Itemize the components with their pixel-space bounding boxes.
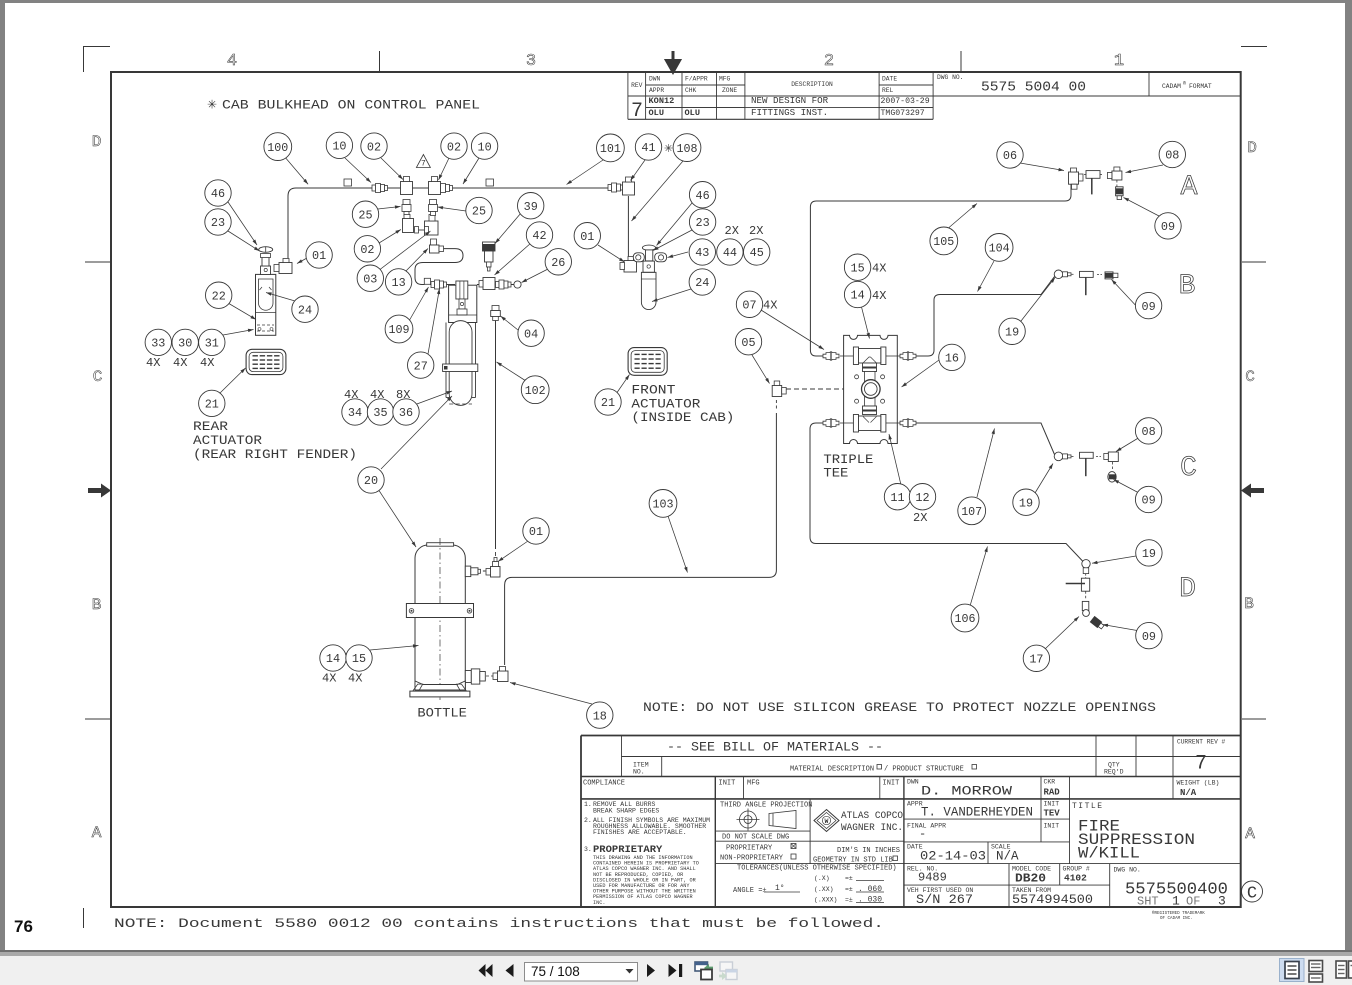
- balloon 14: [320, 645, 346, 671]
- svg-text:ITEM: ITEM: [633, 762, 649, 769]
- elbow fitting 13: [430, 245, 444, 253]
- leader 09 B: [1112, 280, 1141, 311]
- svg-text:75 / 108: 75 / 108: [531, 964, 580, 979]
- svg-text:D: D: [1247, 139, 1257, 157]
- svg-text:=±: =±: [845, 875, 853, 882]
- leader 02 lower: [379, 230, 401, 244]
- leader 10 left: [345, 158, 371, 183]
- wire: line 102 tank to bottle: [495, 320, 497, 549]
- solenoid valve 39: [483, 242, 496, 271]
- leader 10 right: [463, 158, 479, 184]
- balloon 42: [526, 222, 552, 248]
- svg-text:D: D: [92, 133, 102, 151]
- svg-text:B: B: [92, 596, 102, 614]
- check fitting at cab bulkhead: [608, 183, 624, 192]
- svg-text:=±: =±: [845, 886, 853, 893]
- svg-text:(.XX): (.XX): [814, 886, 834, 893]
- svg-text:15: 15: [352, 652, 366, 666]
- svg-text:4X: 4X: [200, 356, 214, 370]
- svg-text:NOTE: Document 5580 0012 00 c: NOTE: Document 5580 0012 00 contains ins…: [114, 916, 884, 931]
- elbow fitting 05: [772, 381, 786, 397]
- svg-text:19: 19: [1142, 547, 1156, 561]
- svg-text:42: 42: [532, 229, 546, 243]
- svg-text:TOLERANCES(UNLESS OTHERWISE SP: TOLERANCES(UNLESS OTHERWISE SPECIFIED): [737, 865, 897, 873]
- appr row: [907, 801, 1060, 820]
- balloon 21: [595, 389, 621, 415]
- svg-text:108: 108: [677, 142, 698, 156]
- toolbar facing-pages button: [1336, 961, 1352, 978]
- svg-text:18: 18: [593, 709, 607, 723]
- fitting 04 on line 102: [491, 306, 501, 321]
- svg-text:09: 09: [1142, 630, 1156, 644]
- balloon 44: [717, 239, 743, 265]
- nozzle group D: nozzle body vertical: [1066, 574, 1090, 592]
- front actuator grille 21: [628, 348, 667, 376]
- svg-text:. 060: . 060: [858, 885, 882, 894]
- balloon 01: [306, 242, 332, 268]
- balloon 20: [358, 467, 384, 493]
- label front actuator: [631, 384, 734, 426]
- leader 13: [404, 249, 428, 274]
- svg-text:24: 24: [298, 303, 312, 317]
- wire: dashed link bottle port to elbow 01: [476, 570, 485, 572]
- leader 26: [522, 269, 549, 283]
- balloon 01: [574, 223, 600, 249]
- wire: line 105 triple tee to nozzle A: [810, 185, 1071, 357]
- atlas copco wagner logo: [814, 810, 903, 835]
- svg-text:CURRENT REV #: CURRENT REV #: [1177, 739, 1226, 746]
- svg-text:PROPRIETARY: PROPRIETARY: [726, 845, 773, 853]
- svg-text:✳: ✳: [664, 143, 673, 156]
- toolbar last-page button: [669, 964, 683, 977]
- svg-text:26: 26: [551, 256, 565, 270]
- svg-text:INIT: INIT: [1044, 823, 1060, 830]
- svg-text:35: 35: [373, 406, 387, 420]
- svg-text:1: 1: [1114, 52, 1124, 71]
- nozzle group B: plug 09: [1097, 272, 1118, 279]
- svg-text:4X: 4X: [322, 672, 336, 686]
- svg-text:GEOMETRY IN STD LIB: GEOMETRY IN STD LIB: [813, 857, 893, 865]
- leader 105: [949, 204, 977, 228]
- elbow fitting 01 at bottle: [486, 558, 500, 578]
- svg-text:MFG: MFG: [747, 780, 760, 788]
- triple tee lower tee 11/12: [853, 415, 885, 433]
- svg-text:INC.: INC.: [593, 900, 605, 906]
- svg-text:4: 4: [227, 52, 237, 71]
- svg-text:41: 41: [641, 141, 655, 155]
- svg-text:33: 33: [151, 337, 165, 351]
- ball end 26: [514, 281, 521, 288]
- svg-text:B: B: [1244, 595, 1254, 613]
- svg-text:WAGNER INC.: WAGNER INC.: [841, 822, 903, 834]
- balloon 02: [354, 236, 380, 262]
- svg-text:46: 46: [211, 187, 225, 201]
- leader 15 bottom: [370, 644, 419, 650]
- leader 24 left: [266, 292, 295, 301]
- zone tick top 2/1: [960, 51, 962, 72]
- svg-text:SHT: SHT: [1137, 895, 1159, 909]
- svg-text:09: 09: [1142, 300, 1156, 314]
- zone tick right D/C: [1242, 261, 1266, 263]
- sheet center arrow left: [88, 484, 111, 498]
- svg-text:15: 15: [851, 261, 865, 275]
- balloon 01: [523, 518, 549, 544]
- elbow 02 left: [401, 177, 413, 195]
- svg-text:C: C: [1180, 453, 1197, 484]
- leader 04: [501, 316, 519, 330]
- svg-text:=±: =±: [845, 897, 853, 904]
- svg-text:BREAK SHARP EDGES: BREAK SHARP EDGES: [593, 808, 659, 815]
- leader 27: [428, 289, 440, 355]
- svg-text:INIT: INIT: [719, 780, 736, 788]
- leader 102: [497, 362, 527, 381]
- svg-text:DO NOT SCALE DWG: DO NOT SCALE DWG: [722, 834, 789, 842]
- svg-text:NEW DESIGN FOR: NEW DESIGN FOR: [751, 95, 829, 106]
- balloon 19: [999, 318, 1025, 344]
- check fitting on manifold line: [431, 280, 447, 289]
- tolerances cell: [733, 865, 897, 905]
- svg-text:(REAR RIGHT FENDER): (REAR RIGHT FENDER): [193, 448, 357, 462]
- svg-text:/ PRODUCT STRUCTURE: / PRODUCT STRUCTURE: [884, 766, 964, 774]
- revision table: [628, 72, 1241, 119]
- zone tick right B/A: [1242, 718, 1266, 720]
- reducer into fitting 13: [431, 239, 437, 245]
- nozzle group B: swivel elbow 19: [1054, 270, 1075, 279]
- tank manifold housing 27: [449, 281, 477, 323]
- date / scale row: [907, 844, 1019, 864]
- svg-text:KON12: KON12: [649, 96, 675, 106]
- nozzle group A: plug 09: [1116, 180, 1124, 200]
- svg-text:MATERIAL DESCRIPTION: MATERIAL DESCRIPTION: [790, 766, 874, 774]
- leader 18: [510, 682, 592, 704]
- label rear actuator: [193, 420, 357, 462]
- svg-text:36: 36: [399, 406, 413, 420]
- stub lines tee ports: [840, 356, 900, 423]
- balloon 18: [587, 702, 613, 728]
- svg-text:C: C: [1245, 368, 1255, 386]
- balloon 23: [205, 209, 231, 235]
- dims in inches cell: [813, 847, 900, 865]
- leader 20 up: [381, 396, 452, 469]
- svg-text:DWN: DWN: [649, 76, 661, 83]
- leader 11: [889, 434, 901, 485]
- wire: dashes below elbow 05: [775, 400, 777, 410]
- leader 01 bottle: [498, 541, 528, 562]
- balloon 07: [736, 291, 762, 317]
- balloon 24: [689, 269, 715, 295]
- svg-text:44: 44: [723, 246, 737, 260]
- CADAM circle-C logo: [1242, 881, 1263, 904]
- toolbar continuous-view button: [1309, 961, 1323, 983]
- svg-text:THIRD ANGLE PROJECTION: THIRD ANGLE PROJECTION: [720, 802, 812, 810]
- veh first used / taken from row: [907, 887, 1093, 907]
- elbow 41 top at front actuator: [623, 177, 635, 195]
- leader 46 left: [228, 202, 257, 245]
- balloon 30: [172, 329, 198, 355]
- corner mark bottom-left: [83, 908, 85, 928]
- leader 31 group: [223, 329, 254, 335]
- leader 25 right: [438, 206, 467, 211]
- balloon 105: [930, 227, 958, 255]
- toolbar next-view button (disabled): [719, 962, 737, 980]
- reducer 25 left: [402, 200, 411, 216]
- svg-text:ATLAS COPCO: ATLAS COPCO: [841, 810, 903, 822]
- toolbar previous-page button: [506, 964, 514, 977]
- balloon 05: [735, 329, 761, 355]
- toolbar next-page button: [647, 964, 655, 977]
- balloon 09: [1135, 292, 1161, 318]
- svg-text:103: 103: [653, 498, 674, 512]
- leader 104: [978, 261, 995, 292]
- balloon 100: [264, 133, 292, 161]
- elbow fitting at bottle bottom: [486, 667, 508, 682]
- svg-text:14: 14: [851, 289, 865, 303]
- balloon 12: [909, 484, 935, 510]
- leader 42: [495, 243, 532, 275]
- bottle upper port fitting: [465, 566, 480, 577]
- rel no / model code / group row: [907, 866, 1141, 886]
- svg-text:27: 27: [414, 359, 428, 373]
- leader 23 right: [653, 230, 692, 251]
- balloon 23: [689, 209, 715, 235]
- sheet number row: [1137, 894, 1226, 909]
- svg-text:WEIGHT (LB): WEIGHT (LB): [1177, 780, 1220, 787]
- compliance notes: [584, 801, 710, 906]
- svg-text:04: 04: [524, 327, 538, 341]
- svg-text:30: 30: [178, 337, 192, 351]
- balloon 27: [408, 352, 434, 378]
- wire: manifold feed line y284: [430, 284, 455, 286]
- tee fitting 03 center: [425, 215, 439, 236]
- wire: line 103 bottle to triple tee branch: [505, 413, 777, 665]
- leader 108: [632, 161, 684, 221]
- balloon 02: [361, 133, 387, 159]
- svg-text:4X: 4X: [872, 289, 886, 303]
- pdf viewer toolbar: [0, 956, 1352, 985]
- svg-text:COMPLIANCE: COMPLIANCE: [583, 780, 625, 788]
- balloon 03: [357, 265, 383, 291]
- svg-text:ACTUATOR: ACTUATOR: [631, 398, 701, 412]
- svg-text:46: 46: [696, 189, 710, 203]
- svg-text:5575 5004 00: 5575 5004 00: [981, 81, 1086, 96]
- nozzle group D: swivel elbow 19: [1082, 560, 1090, 574]
- balloon 11: [884, 484, 910, 510]
- balloon 108: [673, 134, 701, 162]
- balloon 46: [205, 180, 231, 206]
- svg-text:CKR: CKR: [1044, 779, 1056, 786]
- balloon 13: [385, 269, 411, 295]
- leader 09 D: [1103, 624, 1141, 631]
- balloon 22: [206, 282, 232, 308]
- zone tick left D/C: [85, 261, 110, 263]
- rear actuator valve stem: [259, 247, 273, 275]
- svg-text:FRONT: FRONT: [631, 384, 676, 398]
- balloon 33: [145, 329, 171, 355]
- svg-text:7: 7: [1195, 753, 1207, 776]
- svg-text:21: 21: [205, 398, 219, 412]
- triple tee bolt holes: [855, 375, 885, 403]
- svg-text:02-14-03: 02-14-03: [920, 850, 986, 864]
- svg-text:09: 09: [1142, 494, 1156, 508]
- svg-text:REV: REV: [631, 82, 643, 89]
- svg-text:N/A: N/A: [996, 850, 1019, 864]
- leader 46 right: [657, 203, 693, 246]
- svg-text:107: 107: [961, 505, 982, 519]
- leader 19 C: [1035, 464, 1053, 494]
- nozzle group C: plug 09: [1108, 462, 1116, 482]
- svg-text:DB20: DB20: [1015, 872, 1046, 886]
- svg-text:13: 13: [392, 276, 406, 290]
- wire: clip tag on main line left: [344, 179, 352, 186]
- leader 101: [567, 160, 604, 185]
- svg-text:A: A: [1245, 825, 1255, 843]
- wire: clip tag on main line right: [486, 179, 494, 186]
- front actuator cartridge 43/44/45: [633, 245, 666, 310]
- bottle body: [415, 538, 465, 700]
- svg-text:®REGISTERED TRADEMARK: ®REGISTERED TRADEMARK: [1152, 911, 1205, 916]
- nozzle group A: elbow 08: [1107, 167, 1122, 180]
- svg-text:GROUP #: GROUP #: [1063, 866, 1090, 873]
- nozzle group A: elbow fitting 06: [1069, 168, 1084, 189]
- wire: line 106 triple tee to nozzle D: [810, 423, 1083, 562]
- balloon 46: [689, 182, 715, 208]
- svg-text:06: 06: [1003, 149, 1017, 163]
- svg-text:01: 01: [312, 249, 326, 263]
- wire: main cab bulkhead line with left drop: [288, 188, 610, 258]
- leader 22: [228, 303, 256, 320]
- leader 19 B: [1021, 278, 1055, 322]
- svg-text:23: 23: [696, 216, 710, 230]
- balloon 10: [471, 133, 497, 159]
- wire: hose loop from fitting 13 to manifold line: [415, 249, 463, 285]
- balloon 109: [385, 315, 413, 343]
- leader 01 front: [598, 245, 625, 262]
- svg-text:B: B: [1179, 271, 1196, 302]
- toolbar first-page button: [479, 964, 493, 977]
- svg-text:F/APPR: F/APPR: [685, 76, 708, 83]
- svg-text:ANGLE =±: ANGLE =±: [733, 887, 767, 895]
- balloon 26: [545, 249, 571, 275]
- balloon 10: [326, 132, 352, 158]
- svg-text:4X: 4X: [763, 299, 777, 313]
- svg-text:FITTINGS INST.: FITTINGS INST.: [751, 107, 828, 118]
- balloon 15: [844, 254, 870, 280]
- svg-text:CHK: CHK: [685, 87, 697, 94]
- triple tee center body: [862, 363, 881, 415]
- leader 09 A: [1124, 198, 1160, 217]
- elbow below reducer left: [403, 215, 425, 234]
- svg-text:APPR: APPR: [649, 87, 664, 94]
- svg-text:DATE: DATE: [882, 76, 897, 83]
- svg-text:DWG NO.: DWG NO.: [937, 74, 963, 81]
- balloon 06: [997, 142, 1023, 168]
- balloon 41: [635, 134, 661, 160]
- svg-text:NOTE: DO NOT USE SILICON GREA: NOTE: DO NOT USE SILICON GREASE TO PROTE…: [643, 701, 1156, 715]
- balloon 25: [352, 201, 378, 227]
- svg-text:2X: 2X: [913, 511, 927, 525]
- tee fitting 42: [479, 278, 495, 290]
- svg-text:TITLE: TITLE: [1072, 802, 1104, 811]
- triple tee mounting plate 16: [844, 335, 898, 443]
- svg-text:TMG073297: TMG073297: [881, 109, 925, 118]
- leader 25 left: [378, 205, 401, 209]
- svg-text:02: 02: [447, 140, 461, 154]
- compression fitting lower-right: [900, 419, 916, 427]
- title cell: [1072, 802, 1195, 863]
- svg-text:7: 7: [631, 100, 643, 123]
- svg-text:TEV: TEV: [1044, 809, 1061, 819]
- registered trademark note: [1152, 911, 1205, 921]
- compression fitting upper-right: [900, 352, 916, 360]
- balloon 106: [951, 604, 979, 632]
- leader 08 A: [1126, 165, 1164, 173]
- svg-text:TEE: TEE: [823, 467, 848, 481]
- svg-text:2: 2: [824, 52, 834, 71]
- svg-text:DIM'S IN INCHES: DIM'S IN INCHES: [837, 847, 900, 855]
- bottle lower port fitting 18: [465, 669, 485, 684]
- svg-text:19: 19: [1019, 496, 1033, 510]
- svg-text:100: 100: [267, 141, 288, 155]
- check fitting 26 train: [496, 280, 512, 289]
- svg-text:102: 102: [525, 384, 546, 398]
- svg-text:REAR: REAR: [193, 420, 229, 434]
- svg-text:DESCRIPTION: DESCRIPTION: [791, 81, 833, 88]
- balloon 09: [1136, 622, 1162, 648]
- svg-text:19: 19: [1005, 326, 1019, 340]
- leader 09 C: [1114, 480, 1140, 494]
- svg-text:20: 20: [364, 474, 378, 488]
- balloon 103: [649, 490, 677, 518]
- balloon 09: [1155, 213, 1181, 239]
- balloon 14: [844, 281, 870, 307]
- leader 24 right: [652, 289, 691, 302]
- svg-text:4X: 4X: [872, 262, 886, 276]
- svg-text:43: 43: [695, 246, 709, 260]
- svg-text:01: 01: [529, 525, 543, 539]
- svg-text:✳: ✳: [207, 99, 217, 113]
- svg-text:105: 105: [933, 235, 954, 249]
- svg-text:25: 25: [358, 208, 372, 222]
- wire: line 104 triple tee to nozzle B: [901, 277, 1055, 357]
- svg-text:39: 39: [524, 200, 538, 214]
- rear actuator body 22: [256, 274, 276, 335]
- svg-text:A: A: [1181, 172, 1198, 203]
- svg-text:REQ'D: REQ'D: [1104, 769, 1124, 776]
- svg-text:34: 34: [348, 406, 362, 420]
- nozzle group C: nozzle body: [1080, 452, 1094, 476]
- revision triangle 7: [416, 155, 430, 169]
- svg-text:ZONE: ZONE: [722, 87, 737, 94]
- leader 39: [495, 213, 521, 244]
- balloon 104: [985, 234, 1013, 262]
- sheet center arrow top: [667, 51, 680, 72]
- bottle base: [410, 681, 470, 697]
- item no / material description row: [633, 762, 1124, 776]
- svg-text:109: 109: [389, 323, 410, 337]
- balloon 101: [597, 134, 625, 162]
- leader 17: [1045, 617, 1079, 650]
- svg-text:09: 09: [1161, 220, 1175, 234]
- leader 43: [668, 252, 689, 258]
- svg-text:REL: REL: [882, 87, 894, 94]
- toolbar previous-view button: [695, 962, 713, 980]
- balloon 16: [939, 344, 965, 370]
- balloon 35: [367, 399, 393, 425]
- svg-text:(.X): (.X): [814, 875, 830, 882]
- svg-text:17: 17: [1029, 653, 1043, 667]
- leader 41: [631, 160, 646, 181]
- svg-text:PERMISSION OF ATLAS COPCO WAGN: PERMISSION OF ATLAS COPCO WAGNER: [593, 894, 693, 900]
